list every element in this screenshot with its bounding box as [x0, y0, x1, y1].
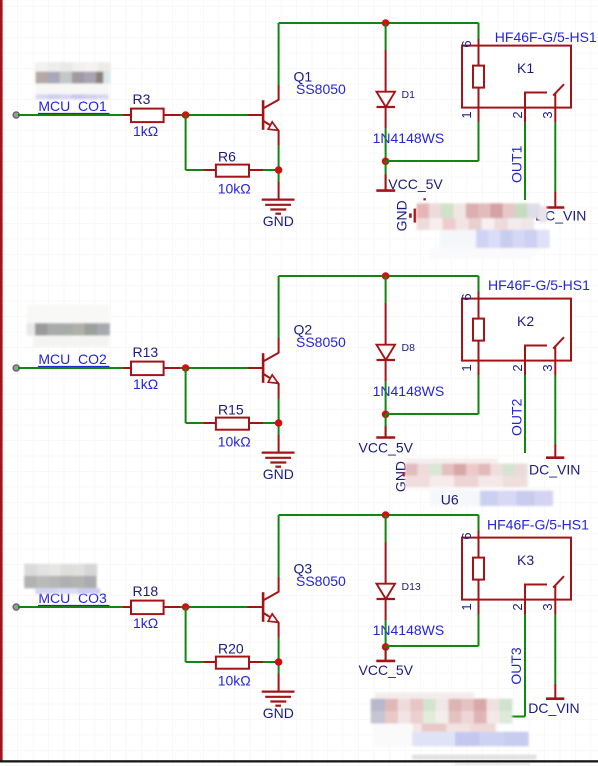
relay K1 coil: [473, 66, 484, 88]
label K1 designator: [517, 60, 534, 76]
svg-text:K1: K1: [517, 60, 534, 76]
svg-text:HF46F-G/5-HS1: HF46F-G/5-HS1: [488, 277, 590, 293]
transistor Q3 SS8050 NPN: [248, 577, 279, 638]
node emitter junction: [275, 419, 283, 427]
wire VCC node to relay K3 pin 1: [386, 614, 479, 646]
wire diode D1 to VCC node: [385, 129, 387, 162]
net label OUT3: [508, 647, 524, 685]
power port GND (rotated) on hidden connector: [393, 461, 409, 492]
relay K1 switch blade: [553, 84, 564, 95]
label R18 value 1kOhm: [133, 615, 158, 631]
wire top rail to relay K3 coil: [279, 514, 479, 516]
label Q1 value SS8050: [296, 81, 346, 97]
label R15 value 10kOhm: [218, 433, 251, 449]
label VCC_5V: [359, 662, 414, 678]
relay K2 pin 2 contact: [524, 346, 547, 376]
relay K2 coil: [473, 319, 484, 341]
net label OUT1: [508, 145, 524, 183]
label Q3 designator: [294, 561, 313, 577]
redaction blur patch A (block 1 left): [35, 62, 111, 99]
label R6 value 10kOhm: [218, 180, 251, 196]
label DC_VIN: [528, 700, 579, 716]
grey smudge at bottom edge: [412, 755, 536, 766]
wire collector of Q2 up to rail: [278, 276, 280, 338]
pin number 3: [540, 603, 555, 610]
svg-text:2: 2: [510, 603, 525, 610]
wire relay pin 3 to DC_VIN: [554, 122, 556, 192]
node VCC junction: [382, 411, 390, 419]
svg-text:10kΩ: 10kΩ: [218, 672, 251, 688]
svg-text:GND: GND: [263, 705, 294, 721]
relay K1 pin 2 contact: [524, 93, 547, 123]
svg-text:2: 2: [510, 111, 525, 118]
power port VCC_5V symbol: [376, 647, 395, 661]
pin number 3: [540, 111, 555, 118]
label GND: [263, 213, 294, 229]
label relay part HF46F-G/5-HS1: [487, 517, 589, 533]
svg-text:R15: R15: [218, 401, 244, 417]
label R3 value 1kOhm: [133, 123, 158, 139]
GND power bar symbol: [403, 467, 410, 482]
svg-text:R18: R18: [133, 583, 159, 599]
pin number 1: [459, 603, 474, 610]
wire junction down to R15: [186, 368, 204, 423]
wire junction down to R6: [186, 115, 204, 170]
net label MCU_CO3: [38, 590, 110, 606]
wire MCU_CO1 to R3: [18, 114, 123, 116]
wire rail to relay pin 6: [478, 276, 480, 292]
wire R13 to Q2 base: [181, 367, 249, 369]
net label OUT2: [508, 398, 524, 436]
pin number 6: [459, 293, 474, 300]
svg-text:3: 3: [540, 603, 555, 610]
svg-text:D13: D13: [402, 581, 421, 593]
wire R20 to emitter node: [263, 661, 279, 663]
svg-text:2: 2: [510, 364, 525, 371]
wire R3 to Q1 base: [181, 114, 249, 116]
wire VCC node to relay K1 pin 1: [386, 122, 479, 161]
label VCC_5V: [388, 176, 443, 192]
label R20 value 10kOhm: [218, 672, 251, 688]
label R18 designator: [133, 583, 159, 599]
node top rail / diode D13: [382, 511, 390, 519]
diode D13 1N4148WS: [377, 542, 396, 621]
relay K3 pin 2 contact: [524, 585, 547, 615]
svg-text:GND: GND: [394, 200, 410, 231]
label Q2 value SS8050: [296, 334, 346, 350]
label D13 designator: [402, 581, 421, 593]
pin number 6: [459, 40, 474, 47]
svg-text:SS8050: SS8050: [296, 81, 346, 97]
sheet left border: [0, 0, 3, 762]
wire R6 to emitter node: [263, 169, 279, 171]
label DC_VIN: [535, 208, 586, 224]
relay K3 switch blade: [553, 576, 564, 587]
label relay part HF46F-G/5-HS1: [488, 277, 590, 293]
relay K3 pin 1 lead: [478, 580, 480, 614]
label R13 designator: [133, 344, 159, 360]
svg-text:6: 6: [459, 40, 474, 47]
label U6 designator (hidden connector): [441, 491, 459, 507]
relay K1 body: [462, 46, 571, 108]
wire top rail to relay K2 coil: [279, 275, 479, 277]
svg-text:U6: U6: [441, 491, 459, 507]
svg-text:VCC_5V: VCC_5V: [388, 176, 443, 192]
input pin MCU_CO1: [13, 112, 19, 118]
power port VCC_5V symbol: [376, 161, 395, 190]
svg-text:3: 3: [540, 111, 555, 118]
wire rail to relay pin 6: [478, 23, 480, 39]
svg-text:R20: R20: [218, 640, 244, 656]
power port DC_VIN symbol: [546, 192, 564, 208]
net label MCU_CO2: [38, 351, 110, 367]
relay K2 pin 3 lead: [554, 346, 556, 375]
svg-text:R13: R13: [133, 344, 159, 360]
relay K1 pin 1 lead: [478, 88, 480, 122]
label D1 designator: [402, 89, 416, 101]
relay K1 pin 3 lead: [554, 93, 556, 122]
wire relay pin 3 to DC_VIN: [554, 614, 556, 684]
svg-text:D8: D8: [402, 342, 416, 354]
diode D1 1N4148WS: [377, 50, 396, 129]
wire relay pin 2 to OUT3: [510, 614, 525, 717]
svg-text:1N4148WS: 1N4148WS: [373, 130, 445, 146]
svg-text:VCC_5V: VCC_5V: [359, 439, 414, 455]
svg-text:1: 1: [459, 603, 474, 610]
node emitter junction: [275, 658, 283, 666]
node VCC junction: [382, 158, 390, 166]
label D8 designator: [402, 342, 416, 354]
label D13 value 1N4148WS: [373, 622, 445, 638]
ground GND symbol: [262, 182, 295, 214]
svg-text:GND: GND: [263, 466, 294, 482]
resistor R15: [204, 418, 264, 430]
wire relay pin 2 to OUT1: [524, 122, 526, 200]
wire rail to diode D13: [385, 515, 387, 542]
power port DC_VIN symbol: [546, 444, 564, 458]
svg-text:DC_VIN: DC_VIN: [528, 700, 579, 716]
GND power bar symbol: [409, 209, 416, 223]
pin number 2: [510, 364, 525, 371]
net label MCU_CO1: [38, 98, 110, 114]
wire collector of Q1 up to rail: [278, 23, 280, 85]
relay K2 pin 1 lead: [478, 341, 480, 375]
redaction blur patch C (block 2 left): [27, 305, 110, 347]
wire emitter of Q2 to ground: [278, 399, 280, 436]
svg-text:1N4148WS: 1N4148WS: [373, 383, 445, 399]
power port GND (rotated) on hidden connector: [394, 200, 410, 231]
power port DC_VIN symbol: [546, 684, 564, 699]
svg-text:10kΩ: 10kΩ: [218, 433, 251, 449]
svg-text:SS8050: SS8050: [296, 573, 346, 589]
relay K3 pin 3 lead: [554, 585, 556, 614]
svg-text:OUT3: OUT3: [508, 647, 524, 685]
label GND: [263, 466, 294, 482]
pin number 1: [459, 111, 474, 118]
input pin MCU_CO3: [13, 604, 19, 610]
wire VCC node to relay K2 pin 1: [386, 375, 479, 414]
svg-text:K2: K2: [517, 313, 534, 329]
wire relay pin 3 to DC_VIN: [554, 375, 556, 444]
node base junction Q3: [182, 603, 190, 611]
sheet bottom black line: [0, 760, 598, 762]
ground GND symbol: [262, 435, 295, 467]
wire emitter of Q1 to ground: [278, 146, 280, 183]
pin number 1: [459, 364, 474, 371]
wire junction down to R20: [186, 607, 204, 662]
wire rail to relay pin 6: [478, 515, 480, 531]
label K3 designator: [517, 552, 534, 568]
wire R15 to emitter node: [263, 422, 279, 424]
redaction blur patch F (block 3 bottom): [371, 692, 529, 746]
relay K3 coil: [473, 558, 484, 580]
transistor Q1 SS8050 NPN: [248, 85, 279, 146]
wire rail to diode D8: [385, 276, 387, 303]
ground GND symbol: [262, 674, 295, 706]
svg-text:1kΩ: 1kΩ: [133, 615, 158, 631]
svg-text:SS8050: SS8050: [296, 334, 346, 350]
wire MCU_CO2 to R13: [18, 367, 123, 369]
label R3 designator: [133, 91, 151, 107]
resistor R18: [123, 601, 181, 615]
transistor Q2 SS8050 NPN: [248, 338, 279, 399]
svg-text:OUT1: OUT1: [508, 145, 524, 183]
wire R18 to Q3 base: [181, 606, 249, 608]
svg-text:DC_VIN: DC_VIN: [529, 461, 580, 477]
node top rail / diode D1: [382, 19, 390, 27]
wire collector of Q3 up to rail: [278, 515, 280, 577]
wire rail to diode D1: [385, 23, 387, 50]
label GND: [263, 705, 294, 721]
svg-text:R3: R3: [133, 91, 151, 107]
label R20 designator: [218, 640, 244, 656]
node top rail / diode D8: [382, 272, 390, 280]
svg-text:3: 3: [540, 364, 555, 371]
relay K3 body: [462, 538, 571, 600]
svg-text:OUT2: OUT2: [508, 398, 524, 436]
pin number 2: [510, 111, 525, 118]
diode D8 1N4148WS: [377, 303, 396, 382]
tiny pin stub of hidden connector (block 1): [423, 198, 425, 200]
svg-text:6: 6: [459, 532, 474, 539]
svg-text:VCC_5V: VCC_5V: [359, 662, 414, 678]
node emitter junction: [275, 166, 283, 174]
svg-text:1kΩ: 1kΩ: [133, 123, 158, 139]
wire MCU_CO3 to R18: [18, 606, 123, 608]
pin number 2: [510, 603, 525, 610]
svg-text:1kΩ: 1kΩ: [133, 376, 158, 392]
svg-text:R6: R6: [218, 148, 236, 164]
label K2 designator: [517, 313, 534, 329]
relay K2 switch blade: [553, 337, 564, 348]
label D1 value 1N4148WS: [373, 130, 445, 146]
resistor R13: [123, 362, 181, 376]
wire top rail to relay K1 coil: [279, 22, 479, 24]
redaction blur patch D (block 2 bottom right): [405, 459, 553, 507]
label R6 designator: [218, 148, 236, 164]
pin number 3: [540, 364, 555, 371]
svg-text:MCU_CO2: MCU_CO2: [38, 351, 107, 367]
wire diode D13 to VCC node: [385, 621, 387, 647]
relay K1 pin 6 lead: [478, 38, 480, 66]
label relay part HF46F-G/5-HS1: [495, 29, 597, 45]
svg-text:10kΩ: 10kΩ: [218, 180, 251, 196]
svg-text:HF46F-G/5-HS1: HF46F-G/5-HS1: [495, 29, 597, 45]
label D8 value 1N4148WS: [373, 383, 445, 399]
svg-text:HF46F-G/5-HS1: HF46F-G/5-HS1: [487, 517, 589, 533]
resistor R6: [204, 165, 264, 177]
pin number 6: [459, 532, 474, 539]
wire diode D8 to VCC node: [385, 382, 387, 415]
label DC_VIN: [529, 461, 580, 477]
svg-text:MCU_CO1: MCU_CO1: [38, 98, 107, 114]
label R15 designator: [218, 401, 244, 417]
label Q3 value SS8050: [296, 573, 346, 589]
redaction blur patch B (block 1 bottom right): [417, 203, 550, 259]
svg-text:K3: K3: [517, 552, 534, 568]
svg-text:D1: D1: [402, 89, 416, 101]
label Q1 designator: [294, 69, 313, 85]
resistor R3: [123, 109, 181, 123]
svg-text:1: 1: [459, 111, 474, 118]
resistor R20: [204, 657, 264, 669]
wire relay pin 2 to OUT2: [524, 375, 526, 453]
svg-text:1N4148WS: 1N4148WS: [373, 622, 445, 638]
svg-text:GND: GND: [263, 213, 294, 229]
wire emitter of Q3 to ground: [278, 638, 280, 675]
node base junction Q2: [182, 364, 190, 372]
label VCC_5V: [359, 439, 414, 455]
svg-text:1: 1: [459, 364, 474, 371]
relay K2 pin 6 lead: [478, 291, 480, 319]
redaction blur patch E (block 3 left): [24, 564, 100, 594]
relay K2 body: [462, 299, 571, 361]
label Q2 designator: [294, 322, 313, 338]
node base junction Q1: [182, 111, 190, 119]
label R13 value 1kOhm: [133, 376, 158, 392]
input pin MCU_CO2: [13, 365, 19, 371]
svg-text:6: 6: [459, 293, 474, 300]
power port VCC_5V symbol: [376, 414, 395, 437]
node VCC junction: [382, 643, 390, 651]
relay K3 pin 6 lead: [478, 530, 480, 558]
